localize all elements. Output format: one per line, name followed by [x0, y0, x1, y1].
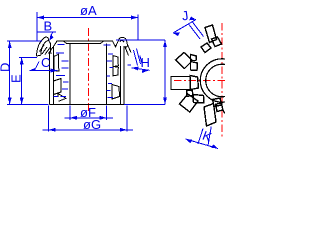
right dim arrows	[163, 40, 167, 47]
right strip blade seats	[112, 56, 120, 99]
K ext lines	[198, 127, 211, 146]
hidden blade lines (blue dashes) right strip	[104, 45, 131, 97]
seat T3-T4	[187, 90, 194, 96]
øG dim line	[43, 129, 134, 131]
bore circle	[206, 64, 239, 97]
centerline (red dash-dot, left view)	[87, 28, 89, 113]
bottom edge	[50, 103, 125, 105]
svg-text:øA: øA	[80, 3, 97, 18]
link line top (land to right dim)	[116, 39, 165, 41]
seat T3a	[190, 76, 199, 90]
seat T1a	[212, 37, 222, 47]
hatch in curl	[40, 45, 54, 55]
øG extensions	[49, 105, 127, 131]
svg-text:B: B	[44, 19, 53, 34]
left blade line	[53, 47, 55, 105]
bore right edge	[106, 44, 108, 105]
left strip blade seats (trapezoids)	[54, 54, 67, 101]
C dimension line	[30, 70, 58, 72]
øF dim line	[65, 117, 114, 119]
link line bottom	[124, 103, 165, 105]
tooth T3 blade (9 o'clock)	[171, 77, 190, 90]
E arrows	[20, 58, 24, 65]
outer circle	[200, 59, 243, 102]
D arrows	[8, 41, 12, 48]
tooth T5 blade (bottom)	[204, 104, 216, 127]
H dim line	[132, 68, 150, 71]
right outer edge	[123, 46, 125, 104]
bottom extension to left	[7, 103, 49, 105]
J ext lines	[189, 22, 204, 39]
B leader arrow	[50, 35, 54, 41]
D dimension line	[9, 41, 11, 104]
K dim line	[186, 139, 219, 149]
right blade line	[119, 46, 121, 104]
øG arrows	[49, 128, 56, 132]
right hook tooth (top-right)	[113, 37, 132, 55]
tooth land line	[57, 40, 114, 42]
D top extension	[7, 40, 42, 42]
svg-text:C: C	[41, 55, 50, 70]
svg-text:H: H	[141, 55, 150, 70]
B underline + leader	[38, 32, 57, 39]
seat T4-T5	[193, 95, 204, 104]
J dim line	[173, 20, 196, 34]
H extension lines	[134, 49, 143, 66]
H arrows	[132, 67, 139, 71]
body outline (black)	[50, 41, 125, 104]
øA extension left	[36, 12, 38, 41]
dimension øA line	[37, 17, 138, 19]
svg-text:E: E	[9, 74, 24, 83]
tooth T1 blade (top)	[205, 25, 217, 43]
left curl tooth (sectioned blade, top-left)	[37, 37, 54, 56]
tooth T4 blade	[180, 94, 199, 112]
øA arrows	[37, 16, 44, 20]
dimension text labels	[0, 3, 150, 132]
seat T5-T6	[213, 98, 222, 107]
øF extensions	[70, 105, 107, 120]
øA extension right	[137, 15, 139, 41]
K dimension	[186, 127, 219, 149]
C slant tick	[36, 62, 40, 69]
svg-text:øG: øG	[83, 117, 101, 132]
C arrows	[30, 68, 37, 72]
seats T2-T3	[191, 55, 197, 61]
E top extension	[19, 57, 37, 59]
svg-text:D: D	[0, 63, 13, 72]
bore left edge	[69, 44, 71, 105]
centerlines (red)	[174, 23, 225, 137]
right-view height dim line	[164, 40, 166, 104]
J dimension	[173, 20, 204, 40]
left hump slant	[54, 41, 58, 47]
seat T1-T2	[201, 43, 211, 53]
tooth T2 blade	[176, 53, 193, 69]
arrowheads (blue)	[8, 16, 167, 132]
hidden blade lines (blue dashes) left strip	[54, 45, 69, 97]
E dimension line	[21, 58, 23, 105]
øF arrows	[70, 116, 77, 120]
top face with chamfers	[64, 41, 104, 44]
left outer edge	[49, 52, 51, 104]
teeth blades	[171, 25, 225, 126]
